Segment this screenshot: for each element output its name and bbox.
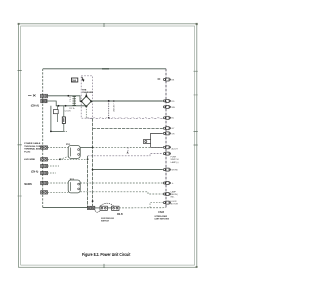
connector CN-A pin 5 xyxy=(41,164,48,167)
wire: CN-A pin3 to RY1 xyxy=(48,147,69,149)
svg-text:(CN-A): (CN-A) xyxy=(31,104,39,108)
wire segment xyxy=(95,207,100,209)
svg-text:LAMP(+): LAMP(+) xyxy=(171,161,179,164)
relay RY1 xyxy=(66,144,80,158)
wire: node to CN-B pin (dashed) xyxy=(93,146,163,148)
right wire code labels xyxy=(171,79,179,205)
dashed enclosure: charger unit xyxy=(81,76,92,118)
wire: vertical 87.6 xyxy=(87,156,89,207)
wire: up to CN-B bottom connector xyxy=(150,203,163,208)
wire: 0V dashed rail xyxy=(87,117,163,120)
svg-text:C2 470: C2 470 xyxy=(64,111,71,113)
svg-text:TERMINAL AND: TERMINAL AND xyxy=(24,148,41,151)
wire: slant to RY1 xyxy=(60,157,68,160)
svg-text:CN-B: CN-B xyxy=(117,214,123,216)
connector CN-A pin 3 xyxy=(41,146,48,149)
connector J1 pin 1 xyxy=(163,78,170,81)
wire: RY2 out 2 to CN-B xyxy=(80,192,163,194)
node: junction above CN-B xyxy=(92,200,94,202)
connector CN-A pin 8 xyxy=(41,191,48,194)
wire: solid rail y=169.6 xyxy=(93,169,163,171)
svg-text:MOTOR: MOTOR xyxy=(171,204,179,206)
connector J1 pin 2 xyxy=(163,99,170,102)
svg-text:WH: WH xyxy=(172,107,176,109)
relay RY2 xyxy=(68,179,80,193)
wire: switched line A xyxy=(88,154,163,156)
label door switch xyxy=(101,218,114,222)
connector J1 pin 5 xyxy=(163,127,170,130)
connector J1 pin 6 xyxy=(163,132,170,135)
svg-text:LIVE WIRE: LIVE WIRE xyxy=(24,159,36,161)
node: junction on DC rail xyxy=(108,100,110,102)
label: AC input mark xyxy=(28,95,36,97)
svg-text:C1 0.1: C1 0.1 xyxy=(69,95,71,102)
svg-text:SWITCH: SWITCH xyxy=(101,221,109,223)
wire: RY2 out to CN-B xyxy=(80,182,163,184)
left subnet: wire branch 1 xyxy=(50,106,52,132)
connector CN-A pin 6 xyxy=(41,171,48,174)
wire: subnet bottom xyxy=(51,130,64,132)
wire: main +24V DC rail xyxy=(91,100,163,102)
wire: from left bus to door switch row xyxy=(0,0,1,1)
wire: stub CN-A pin6 xyxy=(48,172,57,174)
svg-text:CN-B: CN-B xyxy=(158,212,164,214)
wire: left bus CN-A column xyxy=(42,69,44,208)
connector J1 pin 8 xyxy=(163,152,170,155)
wire: vertical 92.6 xyxy=(92,118,94,206)
wire: mid rail xyxy=(93,127,163,129)
connector J1 pin 4 xyxy=(163,116,170,119)
switch S1 door xyxy=(95,203,114,212)
label limit switches xyxy=(155,216,170,221)
fuse bracket between CN pins xyxy=(144,133,163,147)
connector J1 pin 10 xyxy=(163,182,170,185)
wire: CN-A pin8 to RY2 xyxy=(48,191,69,193)
switch S2 door xyxy=(112,206,119,210)
connector J1 pin 12 xyxy=(163,201,170,204)
label: power cable text block xyxy=(24,142,42,153)
connector CN-A pin 4 xyxy=(41,158,48,161)
diode D1 at enclosure corner xyxy=(82,77,84,81)
wire: RY1 output to node xyxy=(80,147,92,149)
svg-text:IND.: IND. xyxy=(171,197,175,199)
wire: node A drop xyxy=(127,147,129,155)
svg-text:A-OUT: A-OUT xyxy=(172,147,179,150)
svg-text:MAINS: MAINS xyxy=(24,183,32,186)
connector J1 pin 11 xyxy=(163,193,170,196)
connector J1 pin 9 xyxy=(163,168,170,171)
svg-text:(CN-A): (CN-A) xyxy=(31,170,39,173)
switch S0 xyxy=(53,110,58,114)
wire: right bus to CN-B xyxy=(165,69,167,208)
svg-text:WORK: WORK xyxy=(172,170,179,172)
connector J1 pin 3 xyxy=(163,105,170,108)
wire: stub CN-A pin5 xyxy=(48,165,60,167)
wire: CN-A pin7 to RY2 xyxy=(48,182,69,184)
wire: bottom run xyxy=(43,206,88,208)
svg-text:A: A xyxy=(127,152,129,155)
wire: AC line lower xyxy=(47,101,86,106)
wire: dashed to right bus xyxy=(119,207,166,209)
connector CN-A pin 7 xyxy=(41,181,48,184)
node: junction xyxy=(92,169,94,171)
svg-text:THROUGH CORD: THROUGH CORD xyxy=(24,146,42,148)
wire segment xyxy=(107,207,111,209)
connector CN-A AC pin 1 xyxy=(41,94,48,98)
svg-text:+ 24 VDC: + 24 VDC xyxy=(112,103,114,113)
right connector column CN / J1 xyxy=(163,78,170,204)
varistor Z1 across AC lines xyxy=(72,96,76,106)
connector J1 pin 7 xyxy=(163,146,170,149)
connector CN-A AC pin 2 xyxy=(41,99,47,102)
svg-text:POWER CABLE: POWER CABLE xyxy=(24,142,41,145)
sheet border frame (decorative) xyxy=(19,24,197,267)
label column: component values left of bridge xyxy=(64,95,74,112)
bridge rectifier DB1 xyxy=(81,93,91,106)
svg-text:PLUG: PLUG xyxy=(24,151,30,153)
fuse F1 xyxy=(62,117,65,124)
wire: bridge negative down xyxy=(85,106,87,118)
svg-text:Figure 8.2. Power Unit Circuit: Figure 8.2. Power Unit Circuit xyxy=(82,252,131,257)
connector CN-B left pair xyxy=(87,206,94,209)
svg-text:LIMIT SWITCHES: LIMIT SWITCHES xyxy=(155,218,170,220)
regulator label box REG xyxy=(71,78,77,82)
wire: top bus xyxy=(102,68,109,70)
node: junction dots on AC lines xyxy=(58,95,70,107)
wire: AC line upper xyxy=(47,96,81,102)
wire: dropper from DC rail xyxy=(108,101,110,118)
label: fuse rating near pin1 xyxy=(158,78,161,80)
svg-text:CHARGER: CHARGER xyxy=(82,91,93,94)
wire: CN-A pin4 to verticals xyxy=(48,158,88,160)
